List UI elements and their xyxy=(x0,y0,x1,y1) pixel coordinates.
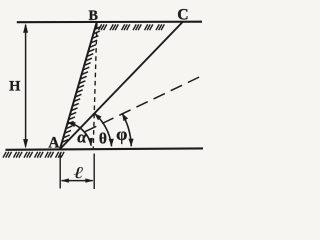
svg-text:θ: θ xyxy=(99,130,107,147)
svg-text:A: A xyxy=(48,134,59,151)
svg-text:φ: φ xyxy=(116,124,127,144)
svg-text:C: C xyxy=(177,7,188,24)
svg-text:ℓ: ℓ xyxy=(73,165,83,183)
svg-text:B: B xyxy=(88,8,98,24)
svg-text:H: H xyxy=(9,79,21,95)
svg-text:α: α xyxy=(77,127,87,146)
